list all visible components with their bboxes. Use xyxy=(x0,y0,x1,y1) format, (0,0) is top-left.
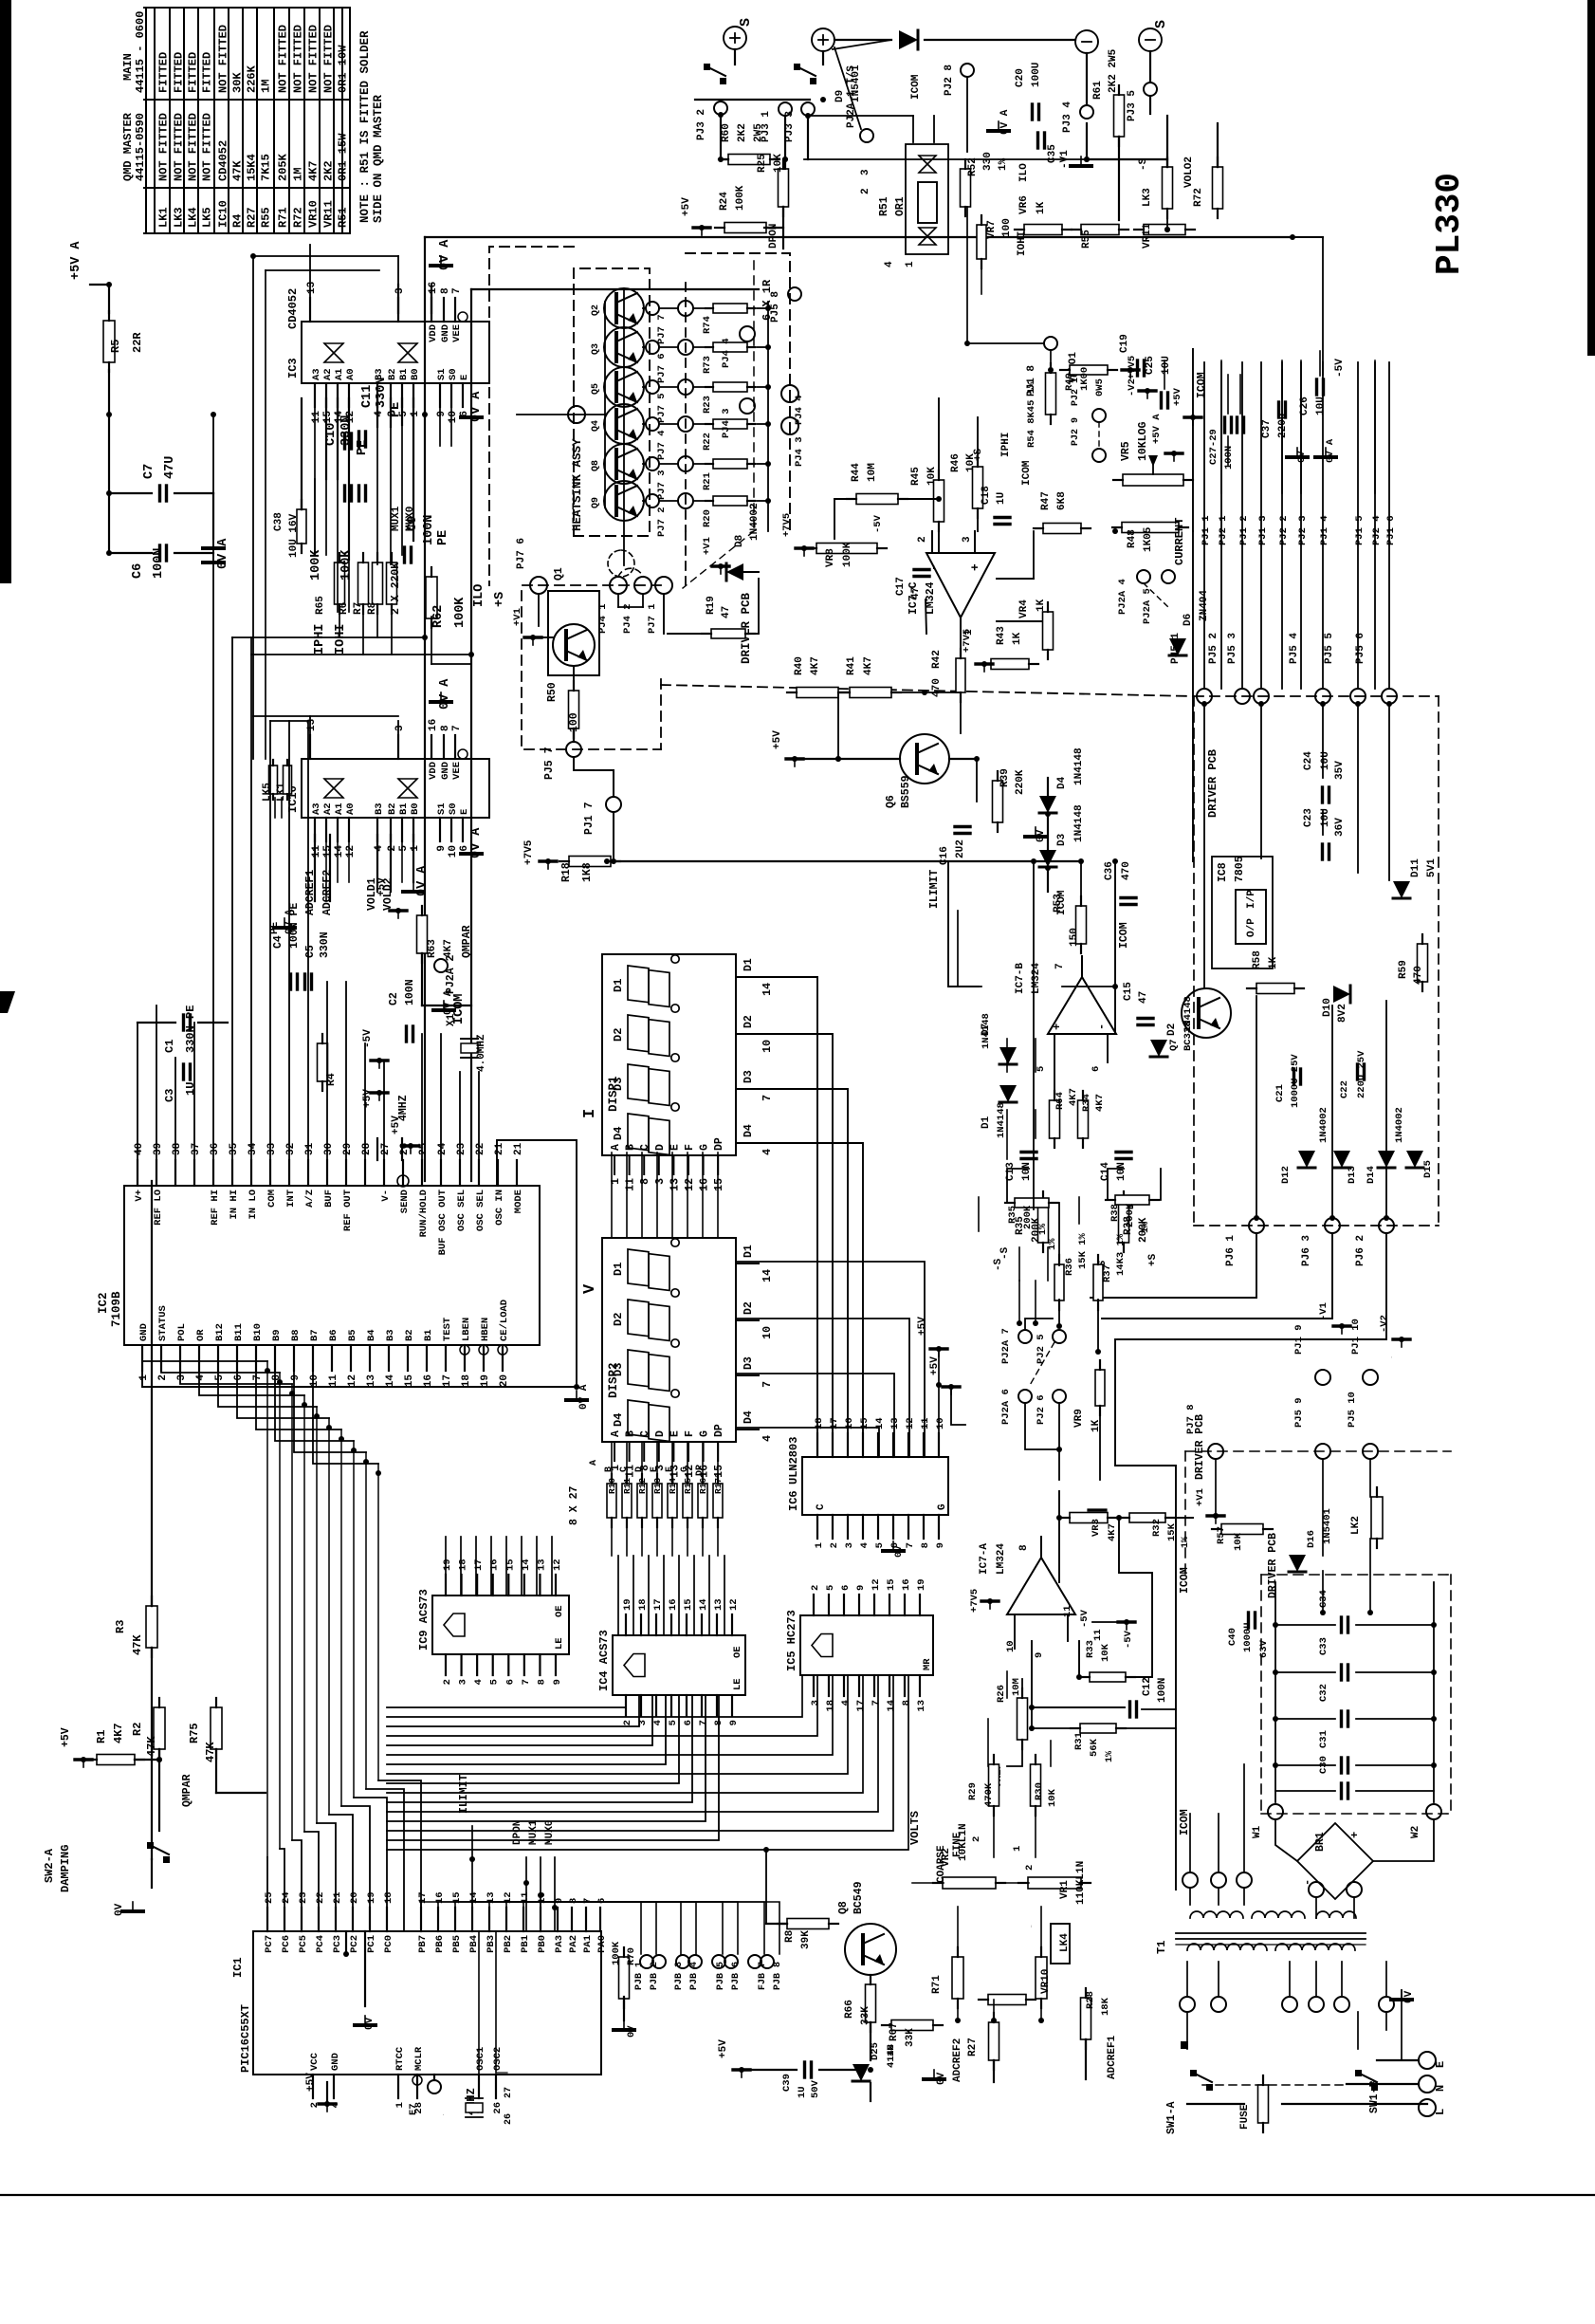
svg-text:31: 31 xyxy=(304,1142,316,1155)
svg-text:DP: DP xyxy=(713,1137,725,1151)
svg-text:G: G xyxy=(680,1466,690,1472)
svg-text:R72: R72 xyxy=(292,207,305,228)
svg-text:D13: D13 xyxy=(1347,1166,1358,1184)
svg-text:V-: V- xyxy=(380,1190,392,1202)
svg-text:R59: R59 xyxy=(1398,960,1409,979)
svg-text:27: 27 xyxy=(504,2087,514,2098)
svg-text:47K: 47K xyxy=(231,160,245,181)
svg-text:D8: D8 xyxy=(734,534,745,547)
svg-text:PB5: PB5 xyxy=(451,1935,463,1953)
svg-text:CE/LOAD: CE/LOAD xyxy=(499,1300,510,1341)
svg-text:14: 14 xyxy=(761,983,774,996)
svg-text:A1: A1 xyxy=(334,802,345,815)
svg-text:8: 8 xyxy=(901,1700,912,1706)
svg-text:4: 4 xyxy=(859,1542,871,1548)
svg-text:+S: +S xyxy=(493,592,507,607)
svg-text:N: N xyxy=(1434,2085,1447,2092)
svg-text:47U: 47U xyxy=(163,456,177,479)
svg-text:C38: C38 xyxy=(273,512,284,531)
svg-text:A: A xyxy=(589,1460,599,1466)
svg-text:PJB 3: PJB 3 xyxy=(674,1962,685,1990)
svg-text:9: 9 xyxy=(436,411,448,417)
svg-text:C: C xyxy=(639,1144,651,1151)
svg-text:100U: 100U xyxy=(1031,63,1042,87)
svg-text:PJ6 1: PJ6 1 xyxy=(1225,1235,1237,1266)
svg-text:330: 330 xyxy=(982,152,994,171)
svg-text:BC338: BC338 xyxy=(1182,1021,1194,1051)
svg-text:+: + xyxy=(968,563,982,571)
svg-text:19: 19 xyxy=(366,1891,377,1904)
svg-text:100N: 100N xyxy=(152,548,166,579)
svg-text:1%: 1% xyxy=(1141,1222,1151,1233)
svg-text:R73: R73 xyxy=(702,356,713,374)
svg-text:100K: 100K xyxy=(309,549,323,581)
svg-text:R66: R66 xyxy=(844,2000,855,2019)
svg-text:13: 13 xyxy=(889,1417,901,1429)
svg-text:R55: R55 xyxy=(260,207,273,228)
svg-text:4148: 4148 xyxy=(886,2044,897,2068)
svg-text:LBEN: LBEN xyxy=(461,1318,472,1341)
svg-text:C32: C32 xyxy=(1318,1684,1329,1702)
svg-text:8: 8 xyxy=(568,1898,579,1904)
svg-text:LK3: LK3 xyxy=(1142,188,1153,207)
svg-text:19: 19 xyxy=(622,1598,633,1611)
svg-text:NOT FITTED: NOT FITTED xyxy=(322,25,336,93)
svg-text:IPHI: IPHI xyxy=(1000,433,1012,457)
svg-text:PJ5 4: PJ5 4 xyxy=(1289,633,1300,664)
svg-text:R62: R62 xyxy=(431,605,446,628)
svg-text:LK5: LK5 xyxy=(262,783,273,802)
svg-text:PJ7 1: PJ7 1 xyxy=(647,603,658,634)
svg-text:D4: D4 xyxy=(742,1411,755,1424)
svg-text:R71: R71 xyxy=(931,1975,943,1994)
svg-text:PJ1 2: PJ1 2 xyxy=(1238,515,1250,545)
svg-text:16: 16 xyxy=(668,1598,679,1611)
svg-text:7K15: 7K15 xyxy=(260,154,273,181)
svg-text:VR8: VR8 xyxy=(825,548,836,567)
svg-text:R5: R5 xyxy=(109,340,122,353)
svg-text:MR: MR xyxy=(922,1658,933,1670)
svg-text:32: 32 xyxy=(285,1143,297,1155)
svg-text:3: 3 xyxy=(654,1178,667,1185)
svg-text:15: 15 xyxy=(322,411,334,424)
svg-text:0V A: 0V A xyxy=(469,391,484,422)
svg-text:ILO: ILO xyxy=(472,584,486,607)
svg-text:E7: E7 xyxy=(408,2103,419,2115)
svg-text:D4: D4 xyxy=(742,1124,755,1137)
svg-text:OSC IN: OSC IN xyxy=(494,1190,505,1226)
svg-text:PL330: PL330 xyxy=(1430,173,1469,275)
svg-text:30K: 30K xyxy=(231,72,245,93)
svg-text:1N4002: 1N4002 xyxy=(749,503,761,541)
svg-text:PJ2 4: PJ2 4 xyxy=(1371,515,1383,545)
svg-text:C18: C18 xyxy=(981,486,992,505)
svg-text:8: 8 xyxy=(440,725,451,731)
svg-text:A: A xyxy=(610,1430,622,1437)
svg-text:R53: R53 xyxy=(1053,894,1064,913)
svg-text:10M: 10M xyxy=(867,463,878,482)
svg-text:D1: D1 xyxy=(612,979,625,992)
svg-text:C1: C1 xyxy=(163,1040,176,1053)
svg-text:PJ1 3: PJ1 3 xyxy=(1257,515,1269,545)
svg-text:IC9 ACS73: IC9 ACS73 xyxy=(417,1589,431,1651)
svg-text:C20: C20 xyxy=(1015,68,1026,87)
svg-text:R57: R57 xyxy=(1216,1526,1227,1544)
svg-text:0V: 0V xyxy=(936,2072,947,2085)
svg-text:5: 5 xyxy=(214,1374,226,1381)
svg-text:29: 29 xyxy=(342,1143,354,1155)
svg-text:R47: R47 xyxy=(1040,491,1052,510)
svg-text:18: 18 xyxy=(458,1559,469,1571)
svg-text:13: 13 xyxy=(366,1374,377,1388)
svg-text:IC4 ACS73: IC4 ACS73 xyxy=(597,1630,611,1691)
svg-text:B3: B3 xyxy=(385,1329,396,1341)
svg-text:NOT FITTED: NOT FITTED xyxy=(173,113,186,181)
svg-text:0V: 0V xyxy=(364,2017,376,2030)
svg-text:24: 24 xyxy=(437,1142,449,1155)
svg-text:22: 22 xyxy=(315,1891,326,1904)
svg-text:LK2: LK2 xyxy=(1350,1516,1362,1535)
svg-text:2: 2 xyxy=(1024,1865,1036,1871)
svg-text:35: 35 xyxy=(229,1142,240,1155)
svg-text:R39: R39 xyxy=(999,768,1011,787)
svg-text:DAMPING: DAMPING xyxy=(59,1845,72,1892)
svg-text:LM324: LM324 xyxy=(1031,963,1042,994)
svg-text:3: 3 xyxy=(394,725,406,731)
svg-text:C6: C6 xyxy=(131,563,145,579)
svg-text:33: 33 xyxy=(266,1142,278,1155)
svg-text:4K7: 4K7 xyxy=(863,656,874,675)
svg-text:R44: R44 xyxy=(851,463,862,482)
svg-text:PJ2A 7: PJ2A 7 xyxy=(1000,1328,1012,1364)
svg-text:12: 12 xyxy=(347,1374,358,1387)
svg-text:IC2: IC2 xyxy=(97,1292,110,1314)
svg-text:R58: R58 xyxy=(1252,950,1263,969)
svg-text:V: V xyxy=(581,1283,599,1294)
svg-text:1K00: 1K00 xyxy=(1079,367,1091,391)
svg-text:PJ7 6: PJ7 6 xyxy=(656,353,668,383)
svg-text:0V A: 0V A xyxy=(469,827,484,858)
svg-text:OR1: OR1 xyxy=(894,196,907,216)
svg-text:8: 8 xyxy=(536,1679,547,1685)
svg-text:PJ7 7: PJ7 7 xyxy=(656,314,668,344)
svg-text:15: 15 xyxy=(886,1578,897,1591)
svg-text:12: 12 xyxy=(728,1598,740,1611)
svg-text:14K3 1%: 14K3 1% xyxy=(1115,1233,1127,1276)
svg-text:A2: A2 xyxy=(322,368,334,380)
svg-text:1N4148: 1N4148 xyxy=(1073,747,1085,785)
svg-text:R52: R52 xyxy=(967,157,979,176)
svg-text:3: 3 xyxy=(844,1542,855,1548)
svg-text:ADCREF2: ADCREF2 xyxy=(321,870,334,915)
svg-text:33K: 33K xyxy=(905,2028,916,2047)
svg-text:17: 17 xyxy=(855,1700,867,1712)
svg-text:220K: 220K xyxy=(1015,769,1026,795)
svg-text:MUX1: MUX1 xyxy=(528,1819,540,1845)
svg-text:+: + xyxy=(1051,1024,1064,1030)
svg-text:14: 14 xyxy=(698,1598,709,1611)
svg-text:10M: 10M xyxy=(1011,1678,1022,1696)
svg-text:R30: R30 xyxy=(1034,1782,1045,1800)
svg-text:IN LO: IN LO xyxy=(247,1190,259,1220)
svg-text:10: 10 xyxy=(761,1040,774,1053)
svg-text:IPHI: IPHI xyxy=(313,624,327,655)
svg-text:PJ3 4: PJ3 4 xyxy=(1062,101,1073,133)
svg-text:NOT FITTED: NOT FITTED xyxy=(157,113,171,181)
svg-text:COM: COM xyxy=(266,1190,278,1208)
svg-text:C25: C25 xyxy=(1145,356,1156,375)
svg-text:3: 3 xyxy=(860,169,871,175)
svg-text:PJ1 1: PJ1 1 xyxy=(1201,515,1212,545)
svg-text:16: 16 xyxy=(428,282,439,294)
svg-text:6: 6 xyxy=(596,1898,608,1904)
svg-text:23: 23 xyxy=(298,1891,309,1904)
svg-text:PJB 6: PJB 6 xyxy=(731,1962,742,1990)
svg-text:16: 16 xyxy=(699,1178,711,1191)
svg-text:B8: B8 xyxy=(290,1329,302,1341)
svg-text:D: D xyxy=(654,1430,667,1437)
svg-text:6: 6 xyxy=(233,1374,245,1381)
svg-text:BR1: BR1 xyxy=(1314,1832,1327,1852)
svg-text:C17: C17 xyxy=(895,577,907,596)
svg-text:PJ5 9: PJ5 9 xyxy=(1293,1397,1305,1428)
svg-text:2: 2 xyxy=(971,1836,982,1842)
svg-text:4: 4 xyxy=(374,845,385,852)
svg-text:PA0: PA0 xyxy=(596,1935,608,1953)
svg-text:15: 15 xyxy=(404,1374,415,1388)
svg-text:LK5: LK5 xyxy=(201,207,214,228)
svg-text:5V1: 5V1 xyxy=(1426,858,1438,877)
svg-text:18: 18 xyxy=(461,1374,472,1388)
svg-text:A: A xyxy=(610,1144,622,1151)
svg-text:R4: R4 xyxy=(231,214,245,228)
svg-text:PJ2 1: PJ2 1 xyxy=(1218,515,1229,545)
svg-text:PJ1 4: PJ1 4 xyxy=(1319,515,1330,545)
svg-text:PJ4 3: PJ4 3 xyxy=(721,408,732,438)
svg-text:35V: 35V xyxy=(1334,761,1346,780)
svg-text:X1: X1 xyxy=(446,1013,457,1026)
svg-text:B12: B12 xyxy=(214,1323,226,1341)
svg-text:12: 12 xyxy=(871,1578,882,1591)
svg-text:R32: R32 xyxy=(1151,1519,1163,1537)
svg-text:D11: D11 xyxy=(1410,858,1421,877)
svg-text:R3: R3 xyxy=(114,1620,127,1633)
svg-text:B: B xyxy=(625,1430,637,1437)
svg-text:D2: D2 xyxy=(742,1301,755,1315)
svg-text:+5V: +5V xyxy=(1172,387,1183,406)
svg-text:11: 11 xyxy=(920,1417,931,1429)
svg-text:FUSE: FUSE xyxy=(1239,2104,1251,2130)
svg-text:ICOM: ICOM xyxy=(910,74,922,100)
svg-text:IC7-A: IC7-A xyxy=(979,1543,990,1575)
svg-text:12: 12 xyxy=(552,1559,563,1571)
svg-text:10K: 10K xyxy=(1233,1532,1244,1551)
svg-text:PJ4 3: PJ4 3 xyxy=(794,436,805,467)
svg-text:20: 20 xyxy=(499,1374,510,1387)
svg-text:+5V A: +5V A xyxy=(1151,414,1163,444)
svg-text:1000U 25V: 1000U 25V xyxy=(1290,1054,1301,1108)
svg-text:D15: D15 xyxy=(1422,1160,1434,1178)
svg-text:PJ5 6: PJ5 6 xyxy=(1355,633,1366,664)
svg-text:D2: D2 xyxy=(1166,1024,1178,1036)
svg-text:13: 13 xyxy=(536,1559,547,1571)
svg-text:A3: A3 xyxy=(311,802,322,815)
svg-text:R8: R8 xyxy=(784,1929,796,1943)
svg-text:D4: D4 xyxy=(1056,776,1068,789)
svg-text:16: 16 xyxy=(428,719,439,731)
svg-text:OR: OR xyxy=(195,1329,207,1341)
svg-text:15: 15 xyxy=(713,1465,725,1478)
svg-text:IOHI: IOHI xyxy=(334,624,348,655)
svg-text:A3: A3 xyxy=(311,368,322,380)
svg-text:VR10: VR10 xyxy=(1040,1969,1052,1994)
svg-text:47: 47 xyxy=(1138,991,1149,1004)
svg-text:PC3: PC3 xyxy=(332,1935,343,1953)
svg-text:1%: 1% xyxy=(1105,1751,1115,1762)
svg-text:100N: 100N xyxy=(1157,1678,1168,1703)
svg-text:1N4148: 1N4148 xyxy=(981,1013,992,1049)
svg-text:100K: 100K xyxy=(453,597,467,628)
svg-text:+S: +S xyxy=(1147,1253,1159,1266)
svg-text:C11: C11 xyxy=(360,385,375,408)
svg-text:D3: D3 xyxy=(742,1356,755,1370)
svg-text:47: 47 xyxy=(910,587,922,599)
svg-text:+7V5: +7V5 xyxy=(781,513,793,537)
svg-text:10: 10 xyxy=(309,1374,321,1387)
svg-text:+7V5: +7V5 xyxy=(523,839,535,865)
svg-text:0V: 0V xyxy=(1036,829,1047,842)
svg-text:14: 14 xyxy=(886,1700,897,1712)
svg-text:R28: R28 xyxy=(1085,1991,1096,2009)
svg-text:5: 5 xyxy=(825,1585,836,1591)
svg-text:C4: C4 xyxy=(272,935,284,949)
svg-text:R25: R25 xyxy=(757,154,768,173)
svg-text:B10: B10 xyxy=(252,1323,264,1341)
svg-text:D: D xyxy=(654,1144,667,1151)
svg-text:S1: S1 xyxy=(436,802,448,815)
svg-text:+7V5: +7V5 xyxy=(1127,356,1138,379)
svg-text:ICOM: ICOM xyxy=(1196,372,1208,398)
svg-text:D16: D16 xyxy=(1306,1530,1317,1548)
svg-text:QMPAR: QMPAR xyxy=(181,1774,193,1807)
svg-text:7: 7 xyxy=(451,287,463,294)
svg-text:PA3: PA3 xyxy=(554,1935,565,1953)
svg-text:B1: B1 xyxy=(423,1329,434,1341)
svg-text:R71: R71 xyxy=(277,207,290,228)
svg-text:C33: C33 xyxy=(1318,1637,1329,1655)
svg-text:+5V: +5V xyxy=(917,1317,928,1336)
svg-text:D1: D1 xyxy=(742,1245,755,1258)
svg-text:+5V: +5V xyxy=(718,2039,729,2058)
svg-text:C22: C22 xyxy=(1339,1080,1350,1098)
svg-text:W1: W1 xyxy=(1252,1825,1263,1838)
svg-text:1000U: 1000U xyxy=(1242,1622,1254,1652)
svg-text:PJ1 10: PJ1 10 xyxy=(1350,1319,1362,1355)
svg-text:I/P: I/P xyxy=(1246,890,1257,909)
svg-text:D1: D1 xyxy=(742,958,755,971)
svg-text:7: 7 xyxy=(761,1095,774,1101)
svg-text:NOT FITTED: NOT FITTED xyxy=(201,113,214,181)
svg-text:PJ2 6: PJ2 6 xyxy=(1036,1394,1047,1425)
svg-text:21: 21 xyxy=(332,1891,343,1904)
svg-text:C21: C21 xyxy=(1274,1084,1286,1102)
svg-text:R18: R18 xyxy=(560,862,573,882)
svg-text:PC7: PC7 xyxy=(264,1935,275,1953)
svg-text:4: 4 xyxy=(761,1149,774,1155)
svg-text:14: 14 xyxy=(334,845,345,858)
svg-text:5: 5 xyxy=(1036,1066,1047,1072)
svg-text:MUX1: MUX1 xyxy=(391,506,402,531)
svg-text:S1: S1 xyxy=(436,368,448,380)
svg-text:PJ7 2: PJ7 2 xyxy=(656,507,668,537)
svg-text:+S: +S xyxy=(973,448,984,461)
svg-text:E: E xyxy=(669,1144,681,1151)
svg-text:1%: 1% xyxy=(998,157,1009,171)
svg-text:Q1: Q1 xyxy=(553,567,565,581)
svg-text:4: 4 xyxy=(473,1679,485,1685)
svg-text:PJ7 8: PJ7 8 xyxy=(1185,1404,1197,1434)
svg-text:BUF OSC OUT: BUF OSC OUT xyxy=(437,1190,449,1255)
svg-text:VR11: VR11 xyxy=(1142,223,1153,249)
svg-text:39K: 39K xyxy=(800,1930,812,1949)
svg-text:205K: 205K xyxy=(277,153,290,181)
svg-text:7: 7 xyxy=(905,1542,916,1548)
svg-text:36: 36 xyxy=(210,1143,221,1155)
svg-text:20: 20 xyxy=(349,1891,360,1904)
svg-text:9: 9 xyxy=(436,845,448,852)
svg-text:LE: LE xyxy=(732,1678,743,1690)
svg-text:E: E xyxy=(650,1466,660,1472)
svg-text:100K: 100K xyxy=(339,549,354,581)
svg-text:G: G xyxy=(699,1430,711,1437)
svg-text:10: 10 xyxy=(448,411,459,423)
svg-text:4K7: 4K7 xyxy=(1107,1523,1118,1541)
svg-text:4K7: 4K7 xyxy=(1094,1094,1106,1112)
svg-text:R46: R46 xyxy=(950,453,962,472)
svg-text:34: 34 xyxy=(247,1142,259,1155)
svg-text:+5V: +5V xyxy=(60,1727,72,1747)
svg-text:S: S xyxy=(1153,20,1169,28)
svg-text:1U: 1U xyxy=(797,2086,808,2098)
svg-text:PJ5 5: PJ5 5 xyxy=(1324,633,1335,664)
svg-text:C15: C15 xyxy=(1123,982,1134,1001)
svg-text:9: 9 xyxy=(1034,1652,1045,1658)
svg-text:PJ5 7: PJ5 7 xyxy=(543,747,556,780)
svg-text:PB2: PB2 xyxy=(503,1935,514,1953)
svg-text:28: 28 xyxy=(361,1142,373,1155)
svg-text:470: 470 xyxy=(1413,966,1424,985)
svg-text:R19: R19 xyxy=(706,596,717,615)
svg-text:8 X 27: 8 X 27 xyxy=(568,1485,580,1525)
svg-text:1K: 1K xyxy=(1012,632,1023,645)
svg-text:HEATSINK ASSY: HEATSINK ASSY xyxy=(571,438,584,531)
svg-text:21: 21 xyxy=(513,1142,524,1155)
svg-text:2U2: 2U2 xyxy=(955,839,966,858)
svg-text:+: + xyxy=(1348,1832,1362,1838)
svg-text:10K: 10K xyxy=(773,154,784,173)
svg-text:PJB 5: PJB 5 xyxy=(716,1962,726,1990)
svg-text:150: 150 xyxy=(1069,928,1080,947)
svg-text:IC7-B: IC7-B xyxy=(1015,963,1026,994)
svg-text:W2: W2 xyxy=(1410,1826,1421,1838)
svg-text:ILIMIT: ILIMIT xyxy=(458,1774,470,1814)
svg-text:PJ2 9: PJ2 9 xyxy=(1071,417,1081,446)
svg-text:17: 17 xyxy=(652,1598,664,1611)
svg-text:R63: R63 xyxy=(427,939,438,958)
svg-text:10U 16V: 10U 16V xyxy=(288,513,300,558)
svg-text:13: 13 xyxy=(916,1700,927,1712)
svg-text:VR7: VR7 xyxy=(986,220,998,239)
